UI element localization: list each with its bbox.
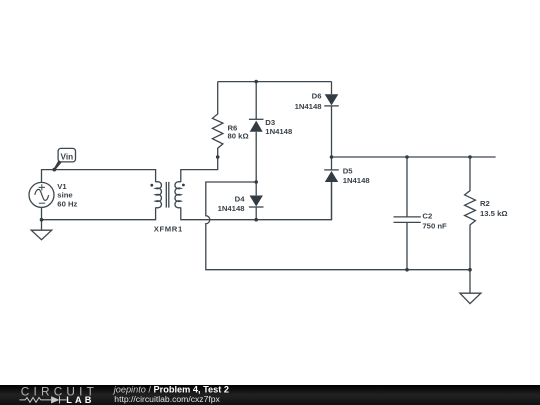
svg-text:D5: D5: [343, 167, 354, 176]
svg-text:Vin: Vin: [61, 152, 74, 161]
svg-text:V1: V1: [57, 182, 67, 191]
svg-text:1N4148: 1N4148: [343, 176, 371, 185]
svg-text:R2: R2: [480, 199, 490, 208]
svg-text:LAB: LAB: [66, 395, 94, 405]
svg-text:XFMR1: XFMR1: [154, 224, 183, 233]
svg-text:D3: D3: [265, 118, 275, 127]
svg-text:750 nF: 750 nF: [422, 222, 447, 231]
svg-text:sine: sine: [57, 191, 73, 200]
svg-text:1N4148: 1N4148: [265, 127, 293, 136]
svg-text:13.5 kΩ: 13.5 kΩ: [480, 209, 508, 218]
svg-text:60 Hz: 60 Hz: [57, 200, 77, 209]
svg-text:1N4148: 1N4148: [218, 204, 246, 213]
svg-text:1N4148: 1N4148: [295, 102, 323, 111]
svg-text:D4: D4: [235, 195, 246, 204]
svg-text:C2: C2: [422, 212, 432, 221]
svg-text:http://circuitlab.com/cxz7fpx: http://circuitlab.com/cxz7fpx: [114, 394, 220, 404]
svg-text:D6: D6: [312, 92, 322, 101]
svg-text:80 kΩ: 80 kΩ: [228, 132, 249, 141]
